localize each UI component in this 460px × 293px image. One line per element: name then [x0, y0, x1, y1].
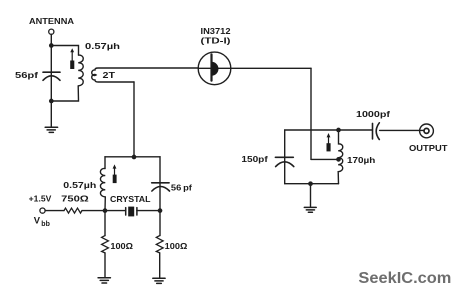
tuning slug arrow L4 [113, 164, 117, 183]
svg-text:56pf: 56pf [15, 71, 38, 80]
tunnel diode anode half-disc [212, 62, 219, 76]
crystal Y1 right plate [136, 208, 138, 215]
wire L1 bottom to node B [51, 86, 78, 101]
node A junction [49, 43, 54, 48]
tuning slug arrow L1 [70, 48, 74, 69]
svg-text:ANTENNA: ANTENNA [29, 16, 74, 26]
wire node D to crystal [105, 210, 126, 212]
wire tank left rail [284, 130, 286, 184]
wire oscillator top rail [105, 156, 160, 158]
wire node E to R3 [159, 211, 161, 236]
capacitor C4 150pf curved plate [276, 162, 294, 167]
wire tank top rail [285, 129, 373, 131]
svg-text:SeekIC.com: SeekIC.com [358, 270, 451, 287]
tuning slug arrow L3 [327, 133, 331, 151]
wire node A through C1 to ground [50, 46, 52, 127]
ground G3 [98, 278, 110, 283]
wire node A to L1 top [51, 46, 78, 56]
tunnel diode cathode bar [210, 54, 212, 80]
svg-text:100Ω: 100Ω [165, 241, 188, 251]
svg-text:170µh: 170µh [347, 155, 375, 165]
capacitor C1 56pf curved plate [43, 76, 60, 81]
ground G1 [45, 127, 57, 132]
supply terminal Vbb [40, 208, 45, 213]
antenna terminal [49, 29, 54, 34]
tunnel diode D1 circle [198, 52, 231, 85]
resistor R2 100 ohm [102, 236, 109, 253]
capacitor C3 56pf curved plate [152, 187, 170, 192]
svg-text:IN3712: IN3712 [201, 26, 231, 36]
inductor L3 170uh [338, 130, 343, 184]
node tap junction [336, 157, 341, 162]
wire Vbb to R1 [45, 210, 64, 212]
svg-text:100Ω: 100Ω [110, 241, 133, 251]
crystal Y1 body [128, 207, 134, 217]
capacitor C3 56pf top plate [152, 182, 169, 184]
svg-text:2T: 2T [103, 70, 117, 80]
node B junction [49, 99, 54, 104]
svg-text:750Ω: 750Ω [61, 193, 89, 203]
wire crystal to node E [137, 210, 160, 212]
wire R3 to ground [159, 253, 161, 278]
wire oscillator right rail [159, 157, 161, 211]
inductor L4 0.57uh [100, 168, 105, 196]
ground G2 [304, 207, 316, 212]
svg-text:0.57µh: 0.57µh [85, 41, 120, 51]
wire L4 to node D [104, 197, 106, 211]
svg-text:+1.5V: +1.5V [29, 193, 52, 203]
svg-text:56 pf: 56 pf [171, 184, 192, 193]
ground G4 [153, 278, 165, 283]
svg-text:bb: bb [41, 221, 50, 228]
svg-text:OUTPUT: OUTPUT [409, 143, 448, 153]
svg-text:V: V [34, 215, 41, 226]
output terminal [420, 124, 434, 138]
wire R1 to node D [82, 210, 105, 212]
node C junction [132, 155, 137, 160]
capacitor C5 1000pf curved plate [376, 123, 379, 140]
wire 2T bottom drop [133, 82, 135, 157]
node E junction [158, 208, 163, 213]
wire node D to R2 [104, 211, 106, 236]
capacitor C1 56pf top plate [43, 71, 60, 73]
wire tank bottom rail [285, 183, 339, 185]
node tank top junction [336, 128, 341, 133]
wire tap horizontal [311, 158, 339, 160]
svg-text:CRYSTAL: CRYSTAL [110, 195, 151, 204]
wire R2 to ground [104, 253, 106, 278]
inductor L1 0.57uh primary [78, 55, 83, 86]
output terminal center ring [424, 128, 429, 133]
svg-text:(TD-I): (TD-I) [201, 36, 231, 45]
transformer secondary 2T [92, 68, 199, 82]
capacitor C4 150pf top plate [275, 156, 293, 158]
crystal Y1 left plate [125, 208, 127, 215]
node D junction [103, 208, 108, 213]
wire oscillator left rail [104, 157, 106, 169]
node tank ground junction [308, 181, 313, 186]
wire main horizontal through diode [198, 67, 311, 69]
resistor R3 100 ohm [156, 236, 163, 253]
svg-text:1000pf: 1000pf [356, 109, 390, 119]
wire diode down to coil tap [310, 68, 312, 159]
wire antenna to node A [50, 34, 52, 45]
wire C5 to output [380, 129, 424, 131]
svg-text:150pf: 150pf [241, 154, 268, 164]
wire ground stem tank [310, 184, 312, 207]
resistor R1 750 ohm [64, 208, 82, 213]
capacitor C5 1000pf left plate [372, 123, 374, 138]
svg-text:0.57µh: 0.57µh [63, 180, 96, 190]
